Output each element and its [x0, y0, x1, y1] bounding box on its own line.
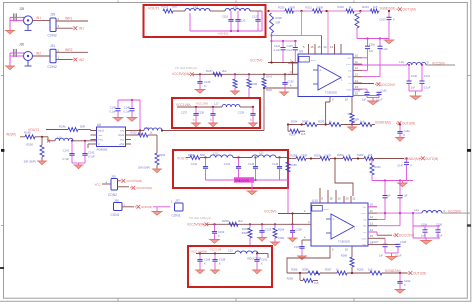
- svg-text:C141: C141: [424, 74, 431, 78]
- capacitor C163 branch: [379, 10, 395, 39]
- svg-text:+: +: [333, 218, 335, 222]
- wire net IN2: [56, 59, 72, 61]
- net label DOCC5V0 port: [353, 82, 395, 87]
- svg-text:OUT1(M): OUT1(M): [403, 8, 416, 12]
- svg-text:VCC1V8(M): VCC1V8(M): [191, 249, 207, 253]
- capacitor C116: [222, 11, 234, 31]
- svg-text:C163: C163: [379, 17, 386, 21]
- net label SGND2: [385, 269, 401, 273]
- svg-text:0.1uF: 0.1uF: [286, 49, 293, 52]
- wire net IN1: [56, 27, 72, 29]
- svg-text:VO2-: VO2-: [361, 238, 366, 240]
- svg-text:C150: C150: [288, 81, 295, 84]
- ground: [397, 181, 408, 187]
- svg-text:VO1+: VO1+: [361, 213, 367, 215]
- svg-text:C124: C124: [274, 45, 281, 48]
- svg-text:NC: NC: [363, 226, 367, 228]
- ground: [248, 123, 258, 127]
- svg-text:R261: R261: [375, 165, 382, 169]
- svg-text:1uF: 1uF: [411, 86, 416, 90]
- svg-text:500R: 500R: [251, 82, 257, 86]
- resistor R247 2k2: [206, 69, 227, 76]
- ground: [347, 125, 357, 131]
- wire input net J28: [10, 17, 24, 30]
- capacitor C140 1uF: [407, 65, 418, 91]
- note TO 4nd CON pin: [175, 66, 198, 70]
- ground: [367, 98, 379, 105]
- capacitor C196 0.1uF: [436, 223, 443, 238]
- wire net INR1: [56, 17, 88, 22]
- svg-text:SGND2(M): SGND2(M): [385, 269, 401, 273]
- ground: [194, 90, 205, 94]
- svg-text:NC: NC: [348, 77, 352, 79]
- svg-text:C137: C137: [181, 111, 188, 115]
- connector J29 CON2: [48, 13, 60, 38]
- svg-text:1k5: 1k5: [368, 153, 373, 157]
- svg-text:J28: J28: [19, 7, 24, 11]
- svg-text:300R: 300R: [302, 268, 308, 272]
- ground: [208, 123, 218, 127]
- wire U8 V- drop: [88, 144, 91, 148]
- wire IN1: [33, 16, 51, 21]
- red highlight box VCC1V8A filter: [172, 98, 260, 128]
- red highlight box VCC1V8M filter: [188, 246, 272, 287]
- wire vcc row upper U9: [250, 59, 298, 75]
- resistor R237 vertical below ladder: [355, 11, 360, 39]
- svg-text:0.1uF: 0.1uF: [424, 86, 431, 90]
- svg-text:L23: L23: [228, 248, 233, 252]
- svg-text:R243: R243: [266, 76, 273, 79]
- net label VCC5V0 port left: [172, 72, 194, 76]
- wire U10 caps cluster: [413, 213, 440, 238]
- svg-text:-IN2: -IN2: [120, 139, 125, 141]
- svg-text:J37: J37: [175, 198, 180, 202]
- series capacitor at J30 input: [14, 49, 16, 57]
- capacitor C141 0.1uF: [420, 65, 431, 91]
- svg-text:K: K: [404, 283, 406, 287]
- resistor R267 1k: [325, 267, 347, 275]
- svg-text:2k2: 2k2: [222, 69, 227, 73]
- ground: [195, 270, 205, 274]
- svg-text:270R: 270R: [301, 153, 307, 157]
- capacitor C142b: [397, 123, 410, 137]
- svg-text:V1-: V1-: [348, 70, 352, 72]
- wire input net J30: [10, 53, 24, 66]
- wire feedback chain row 1: [287, 123, 375, 125]
- wire U9 pin9 to chain: [326, 102, 330, 125]
- svg-text:4.7uF: 4.7uF: [62, 157, 69, 161]
- svg-text:R247: R247: [206, 69, 213, 73]
- svg-text:VOUT1: VOUT1: [148, 7, 160, 11]
- svg-text:K: K: [261, 262, 263, 266]
- svg-text:VOUT2: VOUT2: [177, 156, 188, 160]
- svg-text:CON2: CON2: [48, 34, 57, 38]
- ground: [279, 92, 289, 96]
- svg-text:R260: R260: [337, 153, 344, 157]
- svg-text:R269: R269: [357, 267, 364, 271]
- wire cap rail y41: [272, 40, 298, 42]
- svg-text:240R: 240R: [278, 236, 284, 240]
- port VCC5V0 row2: [130, 186, 152, 190]
- ground: [209, 240, 220, 244]
- resistor R253 30R vertical: [348, 112, 360, 125]
- capacitor C186 column: [368, 181, 408, 226]
- svg-text:VCC5V0(M): VCC5V0(M): [187, 222, 204, 226]
- svg-text:L19: L19: [399, 60, 404, 64]
- svg-text:C125: C125: [287, 45, 294, 48]
- ground: [252, 270, 262, 274]
- svg-text:+IN1: +IN1: [98, 139, 104, 141]
- capacitor C136b: [197, 74, 211, 89]
- net label DOCC5V0 lower port: [368, 232, 414, 238]
- svg-text:R268: R268: [341, 253, 348, 257]
- svg-text:VCC5V0: VCC5V0: [264, 209, 277, 213]
- resistor R258 2k2: [222, 219, 243, 227]
- ground: [37, 161, 47, 165]
- port OUT2 upper: [420, 156, 439, 161]
- svg-text:0.1uF: 0.1uF: [402, 195, 409, 198]
- ground: [230, 91, 240, 95]
- svg-text:V2-: V2-: [363, 232, 367, 234]
- svg-text:K: K: [393, 17, 395, 21]
- net label VCC5V0 right: [432, 61, 445, 65]
- svg-text:SGND3(M): SGND3(M): [375, 121, 391, 125]
- connector J36 CON1 left: [111, 198, 135, 217]
- svg-text:R246: R246: [59, 125, 66, 129]
- port OUT3: [396, 121, 415, 125]
- svg-text:IN1: IN1: [36, 16, 41, 20]
- op-amp U10 TC8002D: [311, 199, 368, 247]
- svg-text:C158: C158: [296, 228, 303, 232]
- svg-text:R267: R267: [325, 267, 332, 271]
- wire feedback chain row: [287, 272, 407, 274]
- capacitor C157 0.1uF: [362, 39, 388, 77]
- port GND1: [135, 205, 152, 209]
- svg-text:L24: L24: [414, 208, 419, 212]
- svg-text:CON1: CON1: [111, 213, 120, 217]
- svg-text:VCC5V0(M): VCC5V0(M): [172, 72, 189, 76]
- svg-text:J29: J29: [50, 13, 55, 17]
- svg-text:+: +: [320, 69, 322, 73]
- svg-text:C192: C192: [404, 279, 411, 283]
- svg-text:R245: R245: [24, 130, 31, 134]
- ground: [394, 290, 405, 294]
- svg-text:TC8002D: TC8002D: [338, 240, 350, 244]
- svg-text:0.1uF: 0.1uF: [109, 109, 116, 113]
- capacitor C159 1uF: [353, 89, 370, 102]
- wire upper rail y35: [272, 11, 322, 54]
- ground: [383, 39, 394, 44]
- svg-text:0.1uF: 0.1uF: [381, 48, 388, 51]
- inductor L20: [210, 151, 233, 157]
- resistor R261 vertical below row: [370, 159, 381, 181]
- svg-text:500R: 500R: [242, 231, 248, 235]
- svg-text:C144: C144: [224, 162, 231, 166]
- inductor L19: [399, 60, 429, 65]
- resistor R245: [24, 130, 35, 139]
- resistor R249 500R vertical: [247, 74, 257, 99]
- wire input row to U8: [20, 136, 97, 142]
- svg-text:R264: R264: [278, 228, 285, 232]
- inductor L14: [185, 5, 210, 11]
- resistor R226 1k5 branch: [288, 125, 306, 137]
- port IN1: [72, 26, 84, 30]
- svg-text:0.1uF: 0.1uF: [436, 234, 443, 237]
- capacitor C148 0.1uF: [123, 100, 134, 118]
- svg-text:50R: 50R: [172, 5, 177, 9]
- svg-text:U9: U9: [299, 50, 303, 54]
- svg-text:C147: C147: [397, 163, 404, 167]
- ground: [385, 253, 398, 260]
- svg-text:R235: R235: [318, 120, 325, 124]
- svg-text:C160: C160: [381, 89, 388, 92]
- U10 left pin stubs: [302, 209, 311, 240]
- svg-text:VCC1V8: VCC1V8: [196, 101, 208, 105]
- resistor R230 150R: [278, 5, 295, 13]
- svg-text:V-: V-: [98, 144, 100, 146]
- svg-text:2k2: 2k2: [238, 219, 243, 223]
- wire U10 bottom to chain: [287, 252, 330, 273]
- resistor R262 1k5: [357, 153, 374, 161]
- svg-text:J35: J35: [111, 174, 116, 178]
- wire U10 row 1: [368, 206, 377, 208]
- wire drop to U10 top: [335, 159, 353, 197]
- net label VCC1V8A: [176, 101, 208, 107]
- resistor R232 1k: [338, 5, 355, 13]
- resistor R268 1k vertical: [341, 252, 354, 273]
- wire VOUT1 filter: [173, 10, 262, 12]
- svg-text:C159: C159: [354, 89, 361, 92]
- connector J31 CON2: [48, 44, 60, 69]
- svg-text:AGND1: AGND1: [218, 32, 229, 36]
- svg-text:K: K: [210, 118, 212, 122]
- port OUT1: [397, 7, 416, 11]
- svg-text:R259: R259: [314, 153, 321, 157]
- svg-text:R233: R233: [362, 5, 369, 9]
- svg-text:0.1uF: 0.1uF: [123, 109, 130, 113]
- ground below box C: [246, 180, 257, 195]
- svg-text:50R: 50R: [276, 21, 281, 25]
- resistor R269 1k5: [357, 267, 382, 275]
- wire bias row lower: [207, 223, 307, 225]
- wire VOUT1 row to U8: [46, 129, 264, 131]
- capacitor C147 branch: [397, 159, 412, 181]
- capacitor C149 0.1uF: [109, 100, 120, 118]
- svg-text:K: K: [204, 84, 206, 88]
- svg-text:Vout1: Vout1: [98, 130, 105, 133]
- svg-text:INR1: INR1: [65, 17, 73, 21]
- svg-text:GND(2V5): GND(2V5): [235, 179, 249, 183]
- port VCC5V0 row1: [120, 179, 142, 183]
- resistor R228 50R vertical: [270, 13, 283, 63]
- svg-text:C142: C142: [404, 129, 411, 133]
- net label VOUT1 mid: [28, 128, 39, 132]
- svg-text:C194: C194: [421, 223, 428, 226]
- resistor R235 1k: [318, 120, 341, 127]
- svg-text:C146: C146: [272, 162, 279, 166]
- svg-text:C141: C141: [63, 149, 70, 153]
- net label AGND1: [218, 32, 229, 36]
- svg-text:C143: C143: [191, 162, 198, 166]
- capacitor C150 at U9 pin3: [282, 73, 294, 92]
- ground: [5, 30, 15, 34]
- svg-text:1uF: 1uF: [421, 234, 426, 237]
- capacitor C198 0.1uF: [377, 241, 407, 257]
- resistor R259 500R: [314, 153, 331, 160]
- resistor R266 1k5 branch: [287, 273, 319, 285]
- ground mid: [151, 207, 170, 216]
- svg-text:J30: J30: [19, 43, 24, 47]
- svg-text:C156: C156: [369, 44, 376, 47]
- ground: [257, 238, 267, 242]
- no-ERC marker: [47, 140, 50, 143]
- capacitor C192: [397, 273, 411, 290]
- svg-text:OUT3(M): OUT3(M): [402, 122, 415, 126]
- svg-text:J36: J36: [114, 198, 119, 202]
- svg-text:C188: C188: [204, 258, 211, 262]
- svg-text:J31: J31: [50, 44, 55, 48]
- U10 bottom pin stubs: [330, 246, 352, 252]
- svg-text:DOCC5V0: DOCC5V0: [399, 234, 414, 238]
- wire vdd rail y38: [357, 37, 389, 39]
- U8 right pin stubs: [126, 131, 132, 145]
- svg-text:R265: R265: [291, 268, 298, 272]
- svg-text:TO 4nd CON pin: TO 4nd CON pin: [189, 216, 212, 220]
- ground: [191, 123, 201, 127]
- wire box C rail: [186, 156, 288, 158]
- svg-text:R254: R254: [159, 153, 166, 157]
- capacitor C197 1uF: [372, 238, 387, 257]
- ground: [112, 118, 123, 122]
- svg-text:R250: R250: [26, 143, 33, 147]
- capacitor C145b: [248, 158, 258, 181]
- svg-text:V1-: V1-: [363, 219, 367, 221]
- svg-text:VCC: VCC: [95, 182, 102, 186]
- wire feedback ladder net: [266, 10, 381, 12]
- svg-text:L17: L17: [214, 102, 219, 106]
- svg-text:C138: C138: [198, 111, 205, 115]
- svg-text:1k5: 1k5: [368, 267, 373, 271]
- resistor R246 50R: [59, 125, 85, 132]
- svg-text:TO 4nd CON pin: TO 4nd CON pin: [175, 66, 198, 70]
- ground: [420, 238, 432, 244]
- wire bottom rail box A: [190, 11, 262, 32]
- capacitor C160 0.1uF: [353, 89, 387, 101]
- svg-text:STBY: STBY: [324, 209, 330, 211]
- resistor R260 1k: [337, 153, 352, 161]
- capacitor C137: [181, 107, 199, 123]
- svg-text:0.1uF: 0.1uF: [88, 155, 95, 159]
- svg-text:R252: R252: [131, 131, 138, 135]
- capacitor C138: [198, 107, 216, 123]
- wire box D rail: [196, 252, 268, 258]
- svg-text:IN1: IN1: [79, 27, 84, 31]
- wire L24 row: [377, 212, 470, 214]
- svg-text:R266: R266: [287, 276, 294, 280]
- capacitor C143: [191, 158, 208, 181]
- wire vdd rail lower y180: [372, 179, 413, 181]
- op-amp U9 TC8002D: [298, 50, 353, 98]
- svg-text:Vout2: Vout2: [118, 134, 125, 137]
- svg-text:1uF: 1uF: [379, 254, 384, 257]
- svg-text:U10: U10: [312, 199, 318, 203]
- svg-text:50R (DNP): 50R (DNP): [138, 166, 150, 169]
- U8 left pin stubs: [91, 131, 97, 145]
- svg-text:TC8002D: TC8002D: [325, 91, 337, 95]
- net label IN_R1: [6, 133, 16, 137]
- svg-text:C116: C116: [222, 15, 229, 19]
- wire box B rail: [177, 106, 254, 108]
- svg-text:R232: R232: [338, 5, 345, 9]
- net label VOUT2: [177, 156, 188, 160]
- ground: [5, 66, 15, 70]
- svg-text:R229: R229: [162, 5, 169, 9]
- svg-text:K: K: [218, 234, 220, 238]
- resistor R233 1k5: [362, 5, 378, 13]
- svg-text:+IN2: +IN2: [119, 144, 125, 146]
- ground: [395, 138, 405, 142]
- svg-text:R262: R262: [357, 153, 364, 157]
- ground: [409, 91, 422, 100]
- port OUT2 lower: [407, 271, 426, 275]
- svg-text:1k5: 1k5: [314, 281, 319, 285]
- svg-text:K: K: [411, 163, 413, 167]
- net label VOUT1: [148, 7, 160, 11]
- net label SGND1: [380, 7, 396, 11]
- svg-text:C153: C153: [265, 228, 272, 232]
- svg-text:K: K: [204, 262, 206, 266]
- capacitor C154: [212, 224, 225, 239]
- resistor R258 270R: [291, 153, 308, 160]
- svg-text:K: K: [193, 118, 195, 122]
- inductor L16: [55, 136, 73, 141]
- svg-text:0.1uF: 0.1uF: [274, 49, 281, 52]
- capacitor C188: [197, 254, 210, 271]
- audio jack J28: [19, 7, 33, 31]
- svg-text:-IN1: -IN1: [98, 135, 103, 137]
- wire +V feed to U8: [118, 99, 140, 135]
- svg-text:30R: 30R: [355, 119, 360, 122]
- capacitor C158: [290, 224, 302, 238]
- series capacitor at J28 input: [14, 13, 16, 21]
- capacitor C194 1uF: [421, 223, 428, 238]
- ground: [126, 118, 137, 122]
- capacitor C125 0.1uF: [286, 41, 298, 63]
- svg-text:CON2: CON2: [108, 193, 117, 197]
- svg-text:C140: C140: [411, 74, 418, 78]
- svg-text:VCC5V0: VCC5V0: [250, 59, 263, 63]
- wire bias row upper: [193, 73, 298, 75]
- wire IN2: [33, 52, 51, 57]
- svg-text:U8: U8: [97, 123, 101, 127]
- svg-text:CON2: CON2: [48, 65, 57, 69]
- net label VCC5V0 at U10: [264, 209, 311, 224]
- svg-text:C189: C189: [219, 258, 226, 262]
- capacitor C146: [272, 158, 282, 181]
- resistor R255 vertical at chain start: [286, 159, 297, 214]
- svg-text:GND(M): GND(M): [141, 205, 152, 209]
- svg-text:R228: R228: [276, 16, 283, 20]
- svg-text:IN2: IN2: [79, 58, 84, 62]
- svg-text:K: K: [404, 133, 406, 137]
- resistor R250 50R DNP vertical: [24, 137, 44, 164]
- capacitor C187 at U10 pin4: [294, 240, 305, 256]
- capacitor C139: [238, 107, 256, 123]
- net label VCC left: [95, 182, 112, 186]
- connector J35 CON2 vertical: [106, 174, 118, 197]
- resistor R265 300R: [291, 268, 320, 275]
- svg-text:50R (DNP): 50R (DNP): [24, 161, 36, 164]
